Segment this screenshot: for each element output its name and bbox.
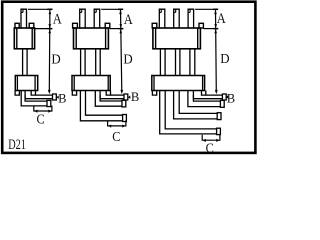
svg-text:A: A (53, 11, 62, 27)
extension line at pin tip level, connector J1 (1-row) (28, 8, 53, 10)
dimension C bracket (108, 121, 126, 128)
pin shank 2 of connector J3 (3-row) (176, 49, 180, 76)
svg-text:B: B (58, 92, 66, 106)
dimension label B (131, 90, 139, 104)
bent solder tail 2 of connector J3 (3-row) (188, 91, 224, 108)
connector pin P3 top tail, connector J3 (3-row) (188, 9, 194, 28)
connector pin P1 top tail, connector J1 (1-row) (21, 9, 27, 28)
svg-text:A: A (124, 11, 133, 27)
pin shank 1 of connector J1 (1-row) (23, 49, 28, 76)
dimension line for A and D, connector J3 (3-row) (213, 9, 218, 94)
svg-text:D21: D21 (8, 136, 26, 152)
upper insulator body of connector J2 (2-row) (73, 23, 110, 49)
bent solder tail 3 of connector J2 (2-row) (80, 91, 126, 122)
connector pin P2 top tail, connector J2 (2-row) (94, 9, 100, 28)
dimension label B (58, 92, 66, 106)
dimension label C (37, 111, 45, 127)
dimension line for A and D, connector J2 (2-row) (118, 9, 123, 94)
svg-text:C: C (112, 128, 120, 144)
bent solder tail 1 of connector J3 (3-row) (193, 94, 226, 100)
svg-text:A: A (217, 10, 226, 26)
upper insulator body of connector J3 (3-row) (152, 23, 203, 49)
lower insulator block of connector J2 (2-row) (72, 76, 111, 96)
dimension label B (227, 91, 235, 105)
dimension label A (53, 11, 62, 27)
svg-text:D: D (51, 51, 61, 66)
lower insulator block of connector J1 (1-row) (15, 76, 38, 96)
dimension B leader arrow (226, 95, 228, 98)
dimension line for A and D, connector J1 (1-row) (47, 9, 52, 94)
svg-text:D: D (220, 51, 230, 66)
pin shank 1 of connector J3 (3-row) (160, 49, 165, 76)
extension line at pin tip level, connector J2 (2-row) (101, 8, 123, 10)
connector pin P1 top tail, connector J3 (3-row) (159, 9, 165, 28)
lower insulator block of connector J3 (3-row) (152, 76, 206, 96)
svg-text:B: B (227, 91, 235, 105)
connector pin P1 top tail, connector J2 (2-row) (80, 9, 86, 28)
dimension label D (220, 51, 230, 66)
dimension B leader arrow (56, 96, 58, 99)
dimension B leader arrow (128, 96, 130, 99)
extension line at body top level, connector J2 (2-row) (110, 28, 124, 30)
bent solder tail 3 of connector J3 (3-row) (174, 91, 221, 120)
upper insulator body of connector J1 (1-row) (14, 23, 34, 49)
dimension label D (51, 51, 61, 66)
dimension label A (124, 11, 133, 27)
dimension label C (206, 140, 214, 156)
drawing sheet label D21 (8, 136, 26, 152)
pin shank 1 of connector J2 (2-row) (81, 49, 86, 76)
connector pin P2 top tail, connector J3 (3-row) (174, 9, 180, 28)
svg-text:B: B (131, 90, 139, 104)
dimension label C (112, 128, 120, 144)
extension line at body top level, connector J1 (1-row) (34, 28, 53, 30)
bent solder tail 2 of connector J2 (2-row) (95, 91, 126, 107)
bent solder tail 4 of connector J3 (3-row) (160, 91, 221, 135)
bent solder tail 2 of connector J1 (1-row) (21, 91, 51, 107)
dimension C bracket (202, 135, 220, 142)
pin shank 3 of connector J3 (3-row) (190, 49, 195, 76)
svg-text:C: C (37, 111, 45, 127)
dimension C bracket (34, 106, 52, 113)
bent solder tail 1 of connector J2 (2-row) (100, 94, 128, 100)
extension line at body top level, connector J3 (3-row) (203, 28, 218, 30)
dimension label A (217, 10, 226, 26)
bent solder tail 1 of connector J1 (1-row) (25, 94, 56, 100)
extension line at pin tip level, connector J3 (3-row) (195, 8, 218, 10)
dimension label D (123, 51, 133, 66)
pin shank 2 of connector J2 (2-row) (96, 49, 101, 76)
svg-text:D: D (123, 51, 133, 66)
